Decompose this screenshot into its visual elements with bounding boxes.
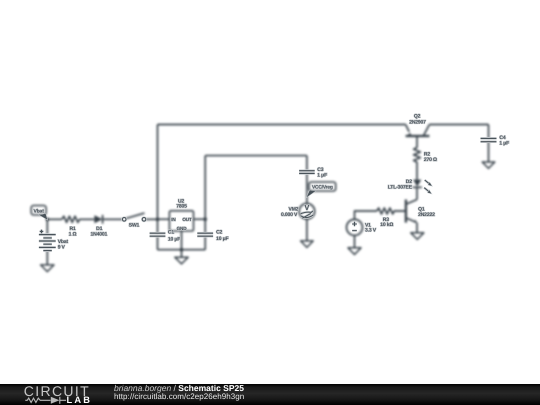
- svg-text:1 μF: 1 μF: [499, 141, 509, 147]
- svg-text:C1: C1: [168, 230, 174, 236]
- svg-text:GND: GND: [177, 226, 188, 231]
- svg-text:10 μF: 10 μF: [168, 237, 180, 243]
- svg-text:2N2222: 2N2222: [418, 212, 435, 218]
- svg-text:IN: IN: [171, 217, 176, 222]
- svg-text:270 Ω: 270 Ω: [424, 157, 437, 163]
- svg-text:LTL-307EE: LTL-307EE: [388, 185, 413, 191]
- svg-text:1 μF: 1 μF: [317, 173, 327, 179]
- svg-text:VCC/Vreg: VCC/Vreg: [312, 185, 333, 191]
- svg-text:LAB: LAB: [67, 395, 93, 405]
- svg-text:10 μF: 10 μF: [216, 236, 228, 242]
- svg-text:3.3 V: 3.3 V: [365, 228, 377, 234]
- svg-text:0.000 V: 0.000 V: [281, 212, 298, 218]
- svg-text:V: V: [305, 203, 310, 212]
- svg-text:C2: C2: [216, 229, 222, 235]
- svg-text:SW1: SW1: [129, 222, 140, 228]
- svg-text:7805: 7805: [176, 204, 187, 210]
- svg-text:1 Ω: 1 Ω: [69, 232, 77, 238]
- svg-text:1N4001: 1N4001: [90, 232, 107, 238]
- svg-text:OUT: OUT: [182, 217, 192, 222]
- svg-text:2N2907: 2N2907: [409, 119, 426, 125]
- svg-text:10 kΩ: 10 kΩ: [380, 222, 393, 228]
- svg-text:9 V: 9 V: [58, 244, 66, 250]
- svg-text:Vbat: Vbat: [33, 208, 44, 214]
